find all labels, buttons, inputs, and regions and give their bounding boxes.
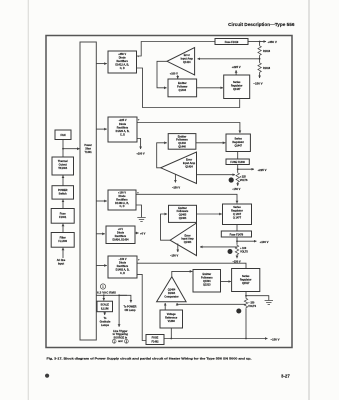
series regulator Q1437 [224, 75, 250, 99]
wire test divider 4 to bottom bus [245, 309, 247, 339]
scale illum control [97, 301, 113, 312]
svg-text:−150 V: −150 V [232, 187, 241, 191]
node +350V output [259, 41, 261, 43]
wire secondary to +225V rectifier [96, 128, 107, 130]
emitter followers Q1504 Q1513 [193, 270, 221, 293]
wire rect4 plus to SR4 collector [137, 263, 246, 268]
diagram border frame [46, 36, 292, 348]
rectifier D1482: -150V diode rectifiers [108, 256, 137, 278]
wire fuse2 to +225V output node [237, 165, 239, 173]
meter test point +100 volts [228, 249, 233, 254]
wire error amp 3 output to EF3 [161, 214, 171, 240]
wire +100V arrow into EF1 [177, 75, 179, 78]
node vref junction on bus [170, 338, 172, 340]
wire to scale illum [103, 295, 105, 300]
emitter followers Q1463 Q1464 [169, 205, 197, 222]
registered mark [45, 374, 49, 378]
series regulator Q1517 [232, 269, 260, 292]
wire SR4 to -150V output node [245, 292, 247, 298]
fan B1401 [55, 130, 71, 140]
wire error amp 3 to -150V rail [177, 244, 179, 253]
node +100V output [236, 240, 238, 242]
op-amp Q1424 error input amp [161, 152, 197, 184]
svg-text:+100 V: +100 V [136, 152, 145, 156]
wire rect3 return to ground [136, 205, 142, 217]
wire rect4 return to fuse F1482 [137, 274, 146, 340]
wire power switch to thermal cutout [62, 176, 64, 186]
rectifier D1420: +225V diode rectifiers [108, 117, 137, 142]
op-amp Q1464 error input amp [170, 223, 196, 256]
svg-text:Fuse F1478: Fuse F1478 [230, 234, 244, 237]
wire line trigger [118, 295, 120, 327]
wire rect2 return to +100V rail [137, 139, 141, 150]
wire filter to fuse [62, 224, 64, 233]
svg-text:+6 V: +6 V [140, 232, 146, 236]
node +225V output [237, 168, 239, 170]
svg-text:FUSEF1482: FUSEF1482 [151, 337, 159, 344]
wire fan to thermal cutout [62, 140, 64, 158]
wire feedback to error amp 3 [200, 246, 237, 248]
svg-text:+350 V: +350 V [268, 40, 277, 44]
voltage reference V1483 [160, 310, 183, 328]
node lamp junction [118, 294, 120, 296]
node circled 2 [125, 339, 129, 343]
wire divider tap feedback to error amp Q1414 [198, 58, 260, 60]
node circled 1 [112, 339, 116, 343]
wire test divider 3 to -150V [236, 256, 238, 259]
wire to power on lamp [119, 295, 131, 302]
wire SR1 to +225V rail [235, 70, 237, 75]
wire AC line input [62, 248, 64, 258]
svg-text:−150 V: −150 V [253, 81, 262, 85]
wire rect3 plus to SR3 collector [136, 194, 237, 203]
power transformer T1401 [80, 42, 96, 340]
svg-text:Fig. 3-17. Block diagram of Po: Fig. 3-17. Block diagram of Power Supply… [47, 357, 252, 361]
wire secondary to +100V rectifier [96, 200, 107, 202]
wire comparator output to EF4 [172, 271, 193, 276]
wire -150V bottom bus [164, 338, 268, 340]
emitter followers Q1443 Q1446 [168, 134, 196, 150]
thermal cutout TK1404 [52, 157, 74, 175]
comparator Q1484 D1494 [157, 277, 187, 302]
power switch SW1401 [52, 186, 74, 199]
wire junction to transformer [63, 148, 80, 150]
fuse F1446 [226, 159, 249, 165]
wire EF3 to series regulator [197, 213, 222, 215]
fuse F1419 [215, 39, 248, 45]
series regulator Q1447 [226, 134, 250, 152]
svg-text:−150 V: −150 V [172, 185, 181, 189]
wire arrow +350V output [260, 41, 266, 43]
wire EF1 to series regulator Q1437 [197, 87, 223, 89]
node scale illum junction [103, 294, 105, 296]
wire fuse to +350V output [248, 41, 260, 43]
wire +6V output arrow [135, 232, 139, 234]
wire fuse3 to +100V output node [236, 237, 238, 244]
wire secondary to +350V rectifier [96, 63, 107, 65]
svg-text:ThermalCutoutTK1404: ThermalCutoutTK1404 [58, 160, 68, 170]
svg-text:−150 V: −150 V [170, 253, 179, 257]
wire secondary to -150V rectifier [96, 265, 107, 267]
resistor R1416 [258, 45, 261, 56]
op-amp Q1414 error input amp [167, 48, 195, 76]
ground rect3 [137, 218, 145, 222]
wire feedback -150V to comparator [177, 303, 246, 304]
wire secondary to +6V rectifier [96, 233, 105, 235]
node -150V output [245, 295, 247, 297]
wire error amp output to emitter follower [157, 61, 167, 88]
wire SR2 to fuse F1446 [237, 152, 239, 160]
wire R1418 to -150V [259, 73, 261, 78]
page edge line left [27, 0, 29, 400]
node winding 1 tag [100, 284, 105, 289]
wire output to R1416 [259, 42, 261, 46]
svg-text:6.3 VAC RMS: 6.3 VAC RMS [97, 291, 116, 295]
wire rect2 plus to SR2 collector [137, 123, 240, 134]
node fan junction [62, 148, 64, 150]
resistor R1418 [258, 62, 261, 73]
rectifier D1424 D1434: +6V diode rectifiers [106, 226, 135, 244]
svg-text:To POWERON Lamp: To POWERON Lamp [123, 305, 136, 312]
node output junction on bus [245, 338, 247, 340]
svg-text:−150 V: −150 V [271, 338, 280, 342]
svg-text:R1416: R1416 [263, 50, 271, 53]
wire rect1 return loop to SR1 [137, 68, 240, 108]
rectifier D1412: +350V diode rectifiers [108, 51, 137, 73]
wire error amp 2 to -150V rail [174, 174, 176, 182]
emitter follower Q1434 [168, 79, 197, 97]
wire rect1 plus to fuse F1419 [137, 42, 216, 57]
fuse F1482 [146, 335, 164, 345]
wire vref to bottom bus [170, 328, 172, 339]
wire feedback to error amp 2 [197, 174, 236, 176]
meter test point +225 volts [229, 177, 234, 182]
fuse F1401 [51, 209, 74, 224]
svg-text:FUSE F1446: FUSE F1446 [230, 161, 245, 164]
svg-text:Fuse F1419: Fuse F1419 [225, 41, 239, 44]
wire EF2 to series regulator Q1447 [196, 142, 225, 144]
ground -150V supply [265, 301, 273, 305]
svg-text:+225 V: +225 V [232, 65, 241, 69]
wire EF4 to series regulator Q1517 [221, 281, 231, 283]
wire arrow +100V output [237, 240, 257, 242]
svg-text:EmitterFollowerQ1434: EmitterFollowerQ1434 [177, 82, 187, 92]
svg-text:POWERSwitch: POWERSwitch [58, 189, 68, 196]
wire to graticule lamps [104, 312, 106, 315]
svg-text:+100 V: +100 V [260, 240, 269, 244]
wire SR3 to fuse F1478 [236, 225, 238, 232]
resistor +100 volts test divider [235, 244, 238, 255]
filter FL1400 [51, 233, 74, 248]
page edge line right [308, 0, 310, 400]
svg-text:3-27: 3-27 [281, 374, 290, 379]
wire tap to R1418 [259, 56, 261, 62]
fuse F1478 [221, 231, 251, 237]
meter test point -150 volts [236, 309, 241, 314]
svg-text:Circuit Description—Type 556: Circuit Description—Type 556 [228, 22, 295, 27]
wire arrow +225V output [238, 168, 254, 170]
wire 6.3VAC bus [96, 294, 127, 296]
series regulator Q1467 Q1477 [223, 204, 252, 225]
svg-text:R1418: R1418 [263, 67, 271, 70]
wire error amp 2 output to EF2 [157, 143, 167, 168]
svg-text:+225 V: +225 V [258, 168, 267, 172]
rectifier D1469: +100V diode rectifiers [108, 190, 136, 210]
svg-text:SCALEILLUM: SCALEILLUM [100, 304, 109, 311]
resistor +225 volts test divider [236, 172, 239, 183]
svg-text:+100 V: +100 V [170, 73, 178, 76]
wire to chassis ground [246, 296, 269, 301]
wire vref to comparator [164, 303, 166, 310]
node divider tap [259, 58, 261, 60]
resistor -150 volts test divider [244, 298, 247, 309]
svg-text:FAN: FAN [61, 134, 66, 137]
wire test divider to -150V [237, 183, 239, 186]
wire fuse to power switch [62, 200, 64, 209]
